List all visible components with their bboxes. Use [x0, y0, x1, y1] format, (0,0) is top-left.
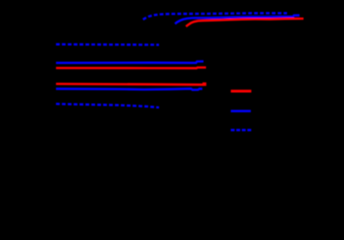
- legend key: blue dashed sample: [231, 129, 252, 131]
- line: blue dashed flat line, lower-left plot top: [56, 43, 159, 46]
- legend key: blue solid sample: [231, 110, 251, 112]
- line: red solid flat line, lower-left plot third: [56, 66, 206, 69]
- tick: red terminal block, fourth line end: [203, 82, 207, 86]
- curve: blue solid series, upper plot: [175, 15, 300, 23]
- curve: red solid series, upper plot: [186, 19, 304, 27]
- line: blue solid flat line, lower-left plot fifth: [56, 89, 202, 90]
- line: blue dashed sloping line, lower-left plot bottom: [56, 104, 159, 108]
- line: red solid flat line, lower-left plot fourth: [56, 83, 203, 86]
- curve: blue dashed series, upper plot: [143, 13, 287, 19]
- legend key: red solid sample: [231, 90, 252, 93]
- line: blue solid flat line, lower-left plot second: [56, 61, 204, 63]
